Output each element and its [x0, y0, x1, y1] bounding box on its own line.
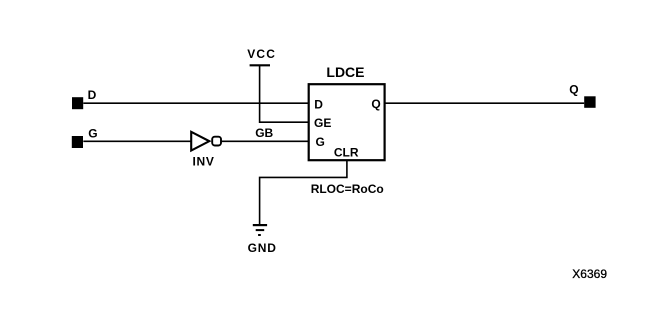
wire GB inverter output to LDCE G pin: [221, 140, 309, 142]
svg-text:RLOC=RoCo: RLOC=RoCo: [311, 182, 384, 196]
svg-text:G: G: [316, 135, 325, 149]
svg-text:GE: GE: [314, 116, 331, 130]
svg-text:CLR: CLR: [334, 145, 359, 159]
wire D pad to LDCE D pin: [83, 102, 309, 104]
svg-text:GB: GB: [255, 126, 273, 140]
ground GND bottom bar: [258, 234, 261, 236]
VCC power bar: [250, 64, 270, 66]
svg-text:X6369: X6369: [572, 267, 607, 281]
svg-text:LDCE: LDCE: [326, 64, 364, 80]
inverter INV triangle: [191, 132, 209, 151]
svg-text:VCC: VCC: [247, 47, 276, 61]
svg-text:D: D: [314, 97, 323, 111]
ground GND top bar: [253, 224, 267, 226]
svg-text:GND: GND: [248, 241, 277, 255]
svg-text:Q: Q: [371, 97, 380, 111]
ground GND middle bar: [256, 229, 265, 231]
latch LDCE box: [309, 84, 385, 160]
wire VCC to LDCE GE pin: [260, 65, 309, 122]
inverter output bubble: [212, 137, 221, 146]
wire LDCE CLR pin to ground: [260, 160, 347, 224]
input pad G: [72, 136, 83, 148]
svg-text:G: G: [88, 127, 97, 141]
svg-text:D: D: [88, 88, 97, 102]
wire LDCE Q pin to output pad: [385, 102, 585, 104]
wire G pad to inverter input: [83, 140, 191, 142]
svg-text:Q: Q: [569, 82, 578, 96]
output pad Q: [584, 96, 595, 108]
svg-text:INV: INV: [193, 155, 215, 169]
input pad D: [72, 97, 83, 109]
